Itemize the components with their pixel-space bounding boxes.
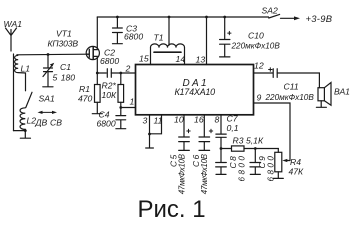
node C7 bottom junction [220,147,223,150]
wire pin13 to rail [206,17,208,65]
wire pins 3 and 11 [150,115,162,134]
svg-text:6800: 6800 [100,56,119,66]
node pin13 rail junction [205,16,208,19]
svg-text:С1: С1 [60,62,71,72]
svg-text:47мкФх10В: 47мкФх10В [200,154,209,194]
svg-text:47К: 47К [289,167,305,177]
svg-text:470: 470 [78,94,93,104]
svg-text:2: 2 [125,64,131,74]
svg-text:R3: R3 [233,136,244,146]
svg-text:VT1: VT1 [56,29,72,39]
node C1 top junction [47,53,50,56]
svg-text:R1: R1 [79,84,90,94]
capacitor C1 (variable) [43,55,54,87]
svg-text:5,1К: 5,1К [246,136,264,146]
svg-text:0,1: 0,1 [227,123,239,133]
ground (L2) [20,131,30,139]
capacitor C10 [220,17,231,57]
svg-text:6800: 6800 [238,154,247,182]
ground (C4) [116,128,126,130]
transistor VT1 [86,17,99,73]
svg-text:КП303В: КП303В [48,39,79,49]
wire pin9 [254,103,291,161]
capacitor C6 [199,115,213,150]
svg-text:С10: С10 [248,31,264,41]
capacitor C4 [116,108,126,129]
wire left rail [13,54,15,131]
ground (C3) [113,43,123,45]
svg-text:ВА1: ВА1 [334,87,350,97]
wire C2 to pin2 [111,72,135,74]
op-amp U1: IC DA1 box [136,65,254,115]
svg-text:13: 13 [196,55,206,65]
node C9 top junction [254,147,257,150]
node C10 rail junction [223,16,226,19]
svg-text:220мкФх10В: 220мкФх10В [231,42,281,51]
svg-text:220мкФх10В: 220мкФх10В [265,93,315,102]
speaker BA1 [318,83,331,108]
svg-text:СВ: СВ [50,118,62,128]
node pin1 junction [119,106,122,109]
wire pin1 [121,107,136,109]
node T1 rail junction [168,16,171,19]
svg-text:С8: С8 [228,155,238,169]
resistor R3 [221,146,278,151]
svg-text:10: 10 [174,115,184,125]
svg-text:SA1: SA1 [39,94,55,104]
svg-text:С7: С7 [227,114,239,124]
svg-text:L1: L1 [21,64,31,74]
wire source node [97,72,106,74]
potentiometer R4 [275,149,290,179]
svg-text:SA2: SA2 [262,6,278,16]
inductor L2 [20,108,25,131]
svg-text:1: 1 [130,97,135,107]
ground (C5) [179,149,190,151]
wire pin12 [254,72,273,74]
svg-text:С9: С9 [257,155,267,169]
svg-text:WA1: WA1 [4,19,23,29]
ground (C8) [216,173,226,175]
svg-text:12: 12 [254,61,264,71]
resistor R2 [118,73,124,108]
svg-text:8: 8 [215,115,220,125]
svg-text:16: 16 [194,115,204,125]
capacitor C11 [269,68,278,78]
svg-text:R4: R4 [290,157,301,167]
svg-text:С11: С11 [284,82,299,92]
svg-text:R2*: R2* [102,81,117,91]
transformer T1 [151,17,185,65]
wire L2 to rail [14,130,26,132]
node R1 top [96,72,99,75]
ground (pin3) [146,134,154,148]
node R2 top [119,72,122,75]
svg-text:+3-9В: +3-9В [306,13,333,24]
svg-text:6800: 6800 [266,154,275,182]
switch SA1 [26,92,32,107]
capacitor C2 [107,69,111,78]
inductor L1 [15,55,26,91]
svg-text:15: 15 [139,54,149,64]
svg-text:3: 3 [143,116,148,126]
wire C11 to speaker [277,73,319,88]
capacitor C5 [179,115,191,150]
svg-text:К174ХА10: К174ХА10 [175,87,216,97]
ground (R1) [92,113,102,115]
wire top rail [97,16,268,18]
ground (C10) [220,56,230,58]
ground (C6) [199,149,210,151]
svg-text:Рис. 1: Рис. 1 [138,196,206,223]
svg-text:6800: 6800 [124,32,143,42]
svg-text:14: 14 [176,54,186,64]
band arrow [40,111,55,113]
ground (R4) [273,177,283,179]
resistor R1 [95,73,101,113]
capacitor C3 [113,17,123,43]
ground (BA1) [316,106,326,108]
svg-text:9: 9 [257,93,262,103]
node L2 bottom junction [24,129,27,132]
svg-text:ДВ: ДВ [35,118,48,128]
capacitor C9 [250,149,261,175]
node pin3 junction [148,133,151,136]
svg-text:5 180: 5 180 [53,73,76,83]
svg-text:10К: 10К [102,90,118,100]
ground (C9) [250,173,260,175]
svg-text:47мкФх10В: 47мкФх10В [178,154,187,194]
svg-text:6800: 6800 [97,119,116,129]
capacitor C8 [216,149,227,175]
capacitor C7 [216,115,226,149]
antenna WA1 [6,28,17,51]
node C3 junction [116,16,119,19]
svg-text:Т1: Т1 [154,33,164,43]
wire gate node [17,53,87,56]
ground (C1) [43,86,53,88]
switch SA2 [269,14,300,20]
